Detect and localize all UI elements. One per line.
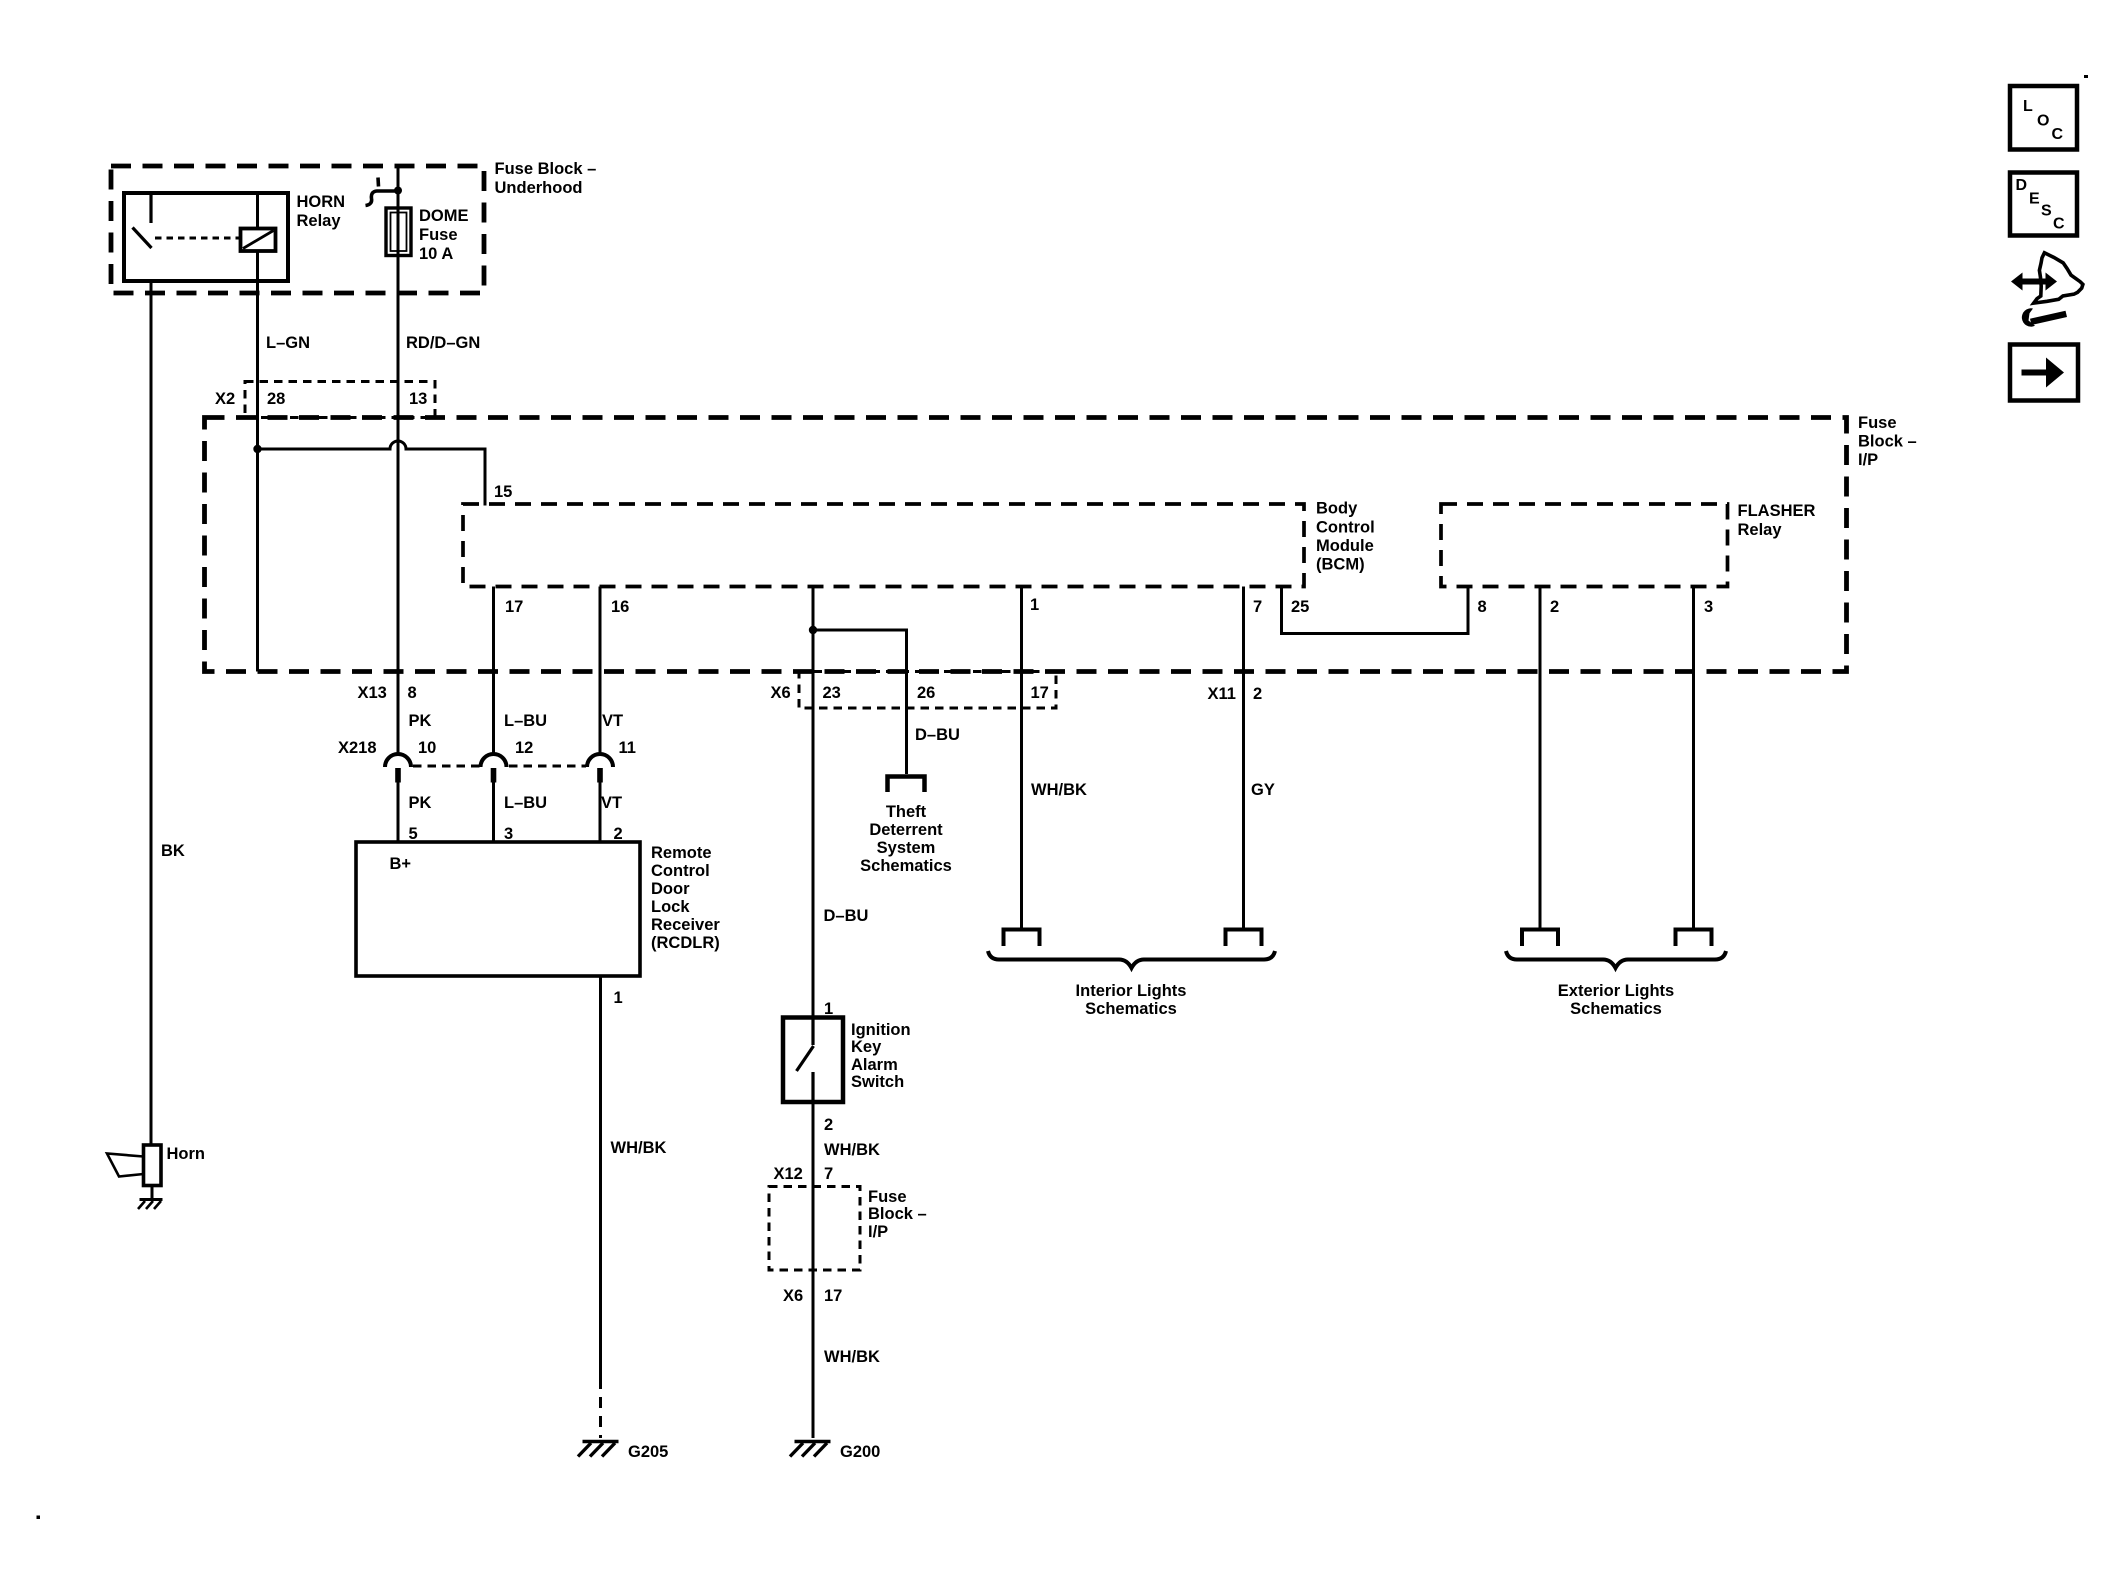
svg-text:G205: G205 [628, 1443, 668, 1461]
node junction L-GN [253, 445, 261, 453]
svg-text:VT: VT [601, 794, 622, 812]
svg-text:PK: PK [409, 712, 432, 730]
icon LOC [2010, 86, 2077, 150]
svg-text:Control: Control [651, 862, 710, 880]
svg-text:Receiver: Receiver [651, 916, 720, 934]
svg-text:12: 12 [515, 739, 533, 757]
svg-text:Lock: Lock [651, 898, 690, 916]
svg-text:X11: X11 [1208, 685, 1236, 703]
module RCDLR box [356, 825, 720, 976]
svg-text:10 A: 10 A [419, 245, 453, 263]
svg-text:Door: Door [651, 880, 690, 898]
svg-text:L: L [2023, 98, 2033, 115]
connector X6 [771, 672, 1057, 709]
svg-text:Exterior Lights: Exterior Lights [1558, 982, 1674, 1000]
svg-text:WH/BK: WH/BK [824, 1348, 880, 1366]
svg-text:Deterrent: Deterrent [869, 821, 943, 839]
svg-text:X6: X6 [771, 684, 791, 702]
connector X12 fuse block I/P [769, 1165, 927, 1305]
relay K2 FLASHER Relay box [1441, 502, 1816, 587]
brace interior lights [988, 951, 1275, 1018]
svg-text:X13: X13 [358, 684, 387, 702]
svg-text:7: 7 [1253, 598, 1262, 616]
brace exterior lights [1506, 951, 1726, 1018]
svg-text:Block –: Block – [868, 1205, 927, 1223]
fuse block underhood box [111, 160, 596, 293]
svg-text:D–BU: D–BU [824, 907, 869, 925]
svg-text:26: 26 [917, 684, 935, 702]
connector X11 labels [1208, 685, 1263, 703]
svg-text:Body: Body [1316, 500, 1358, 518]
pin 7 BCM wire GY [1244, 587, 1275, 929]
off-page theft deterrent [860, 777, 952, 876]
svg-text:Horn: Horn [167, 1145, 206, 1163]
svg-text:WH/BK: WH/BK [611, 1139, 667, 1157]
svg-text:DOME: DOME [419, 207, 469, 225]
terminal interior lights 2 [1226, 930, 1262, 947]
svg-text:X218: X218 [338, 739, 377, 757]
wire D-BU BCM 23 branch [809, 587, 960, 1018]
svg-text:1: 1 [1030, 596, 1039, 614]
svg-text:GY: GY [1251, 781, 1275, 799]
svg-text:Fuse Block –: Fuse Block – [495, 160, 597, 178]
pin 1 BCM wire WH/BK [1022, 587, 1087, 929]
pin 3 FLASHER [1694, 587, 1714, 929]
module BCM box [463, 500, 1375, 587]
svg-text:16: 16 [611, 598, 629, 616]
svg-text:Ignition: Ignition [851, 1021, 911, 1039]
svg-text:Control: Control [1316, 519, 1375, 537]
svg-text:(RCDLR): (RCDLR) [651, 934, 720, 952]
svg-text:L–BU: L–BU [504, 794, 547, 812]
wire junction to BCM pin 15 with hop [258, 441, 513, 672]
artifact marks [2084, 75, 2088, 78]
svg-text:2: 2 [1253, 685, 1262, 703]
svg-text:X2: X2 [215, 390, 235, 408]
svg-text:D: D [2016, 177, 2028, 194]
svg-text:Alarm: Alarm [851, 1056, 898, 1074]
svg-text:7: 7 [824, 1165, 833, 1183]
svg-text:1: 1 [614, 989, 623, 1007]
svg-text:Key: Key [851, 1038, 882, 1056]
wire RD/D-GN fuse to X2-13 [406, 334, 480, 352]
svg-text:RD/D–GN: RD/D–GN [406, 334, 480, 352]
svg-text:Fuse: Fuse [1858, 414, 1897, 432]
icon DESC [2010, 173, 2077, 236]
pin 16 BCM [600, 587, 629, 757]
svg-text:VT: VT [602, 712, 623, 730]
svg-text:X6: X6 [783, 1287, 803, 1305]
svg-text:Relay: Relay [1738, 521, 1783, 539]
ground horn [138, 1186, 163, 1210]
svg-text:Module: Module [1316, 537, 1374, 555]
svg-text:Fuse: Fuse [419, 226, 458, 244]
svg-text:8: 8 [408, 684, 417, 702]
svg-text:25: 25 [1291, 598, 1309, 616]
svg-text:WH/BK: WH/BK [1031, 781, 1087, 799]
svg-text:PK: PK [409, 794, 432, 812]
fuse block I/P box [205, 414, 1917, 672]
svg-text:Interior Lights: Interior Lights [1076, 982, 1187, 1000]
svg-text:15: 15 [494, 483, 512, 501]
svg-text:I/P: I/P [1858, 451, 1878, 469]
relay K1 HORN Relay [124, 193, 345, 281]
svg-text:FLASHER: FLASHER [1738, 502, 1816, 520]
svg-text:17: 17 [1031, 684, 1049, 702]
svg-text:8: 8 [1478, 598, 1487, 616]
svg-text:E: E [2029, 191, 2040, 208]
svg-text:B+: B+ [390, 855, 412, 873]
ground G200 [790, 1442, 880, 1462]
svg-text:17: 17 [824, 1287, 842, 1305]
svg-text:Fuse: Fuse [868, 1188, 907, 1206]
svg-text:13: 13 [409, 390, 427, 408]
svg-text:Underhood: Underhood [495, 179, 583, 197]
svg-text:Schematics: Schematics [1570, 1000, 1662, 1018]
svg-text:WH/BK: WH/BK [824, 1141, 880, 1159]
svg-text:G200: G200 [840, 1443, 880, 1461]
wire RCDLR pin 1 WH/BK [601, 976, 667, 1438]
svg-text:28: 28 [267, 390, 285, 408]
svg-text:S: S [2041, 203, 2052, 220]
svg-text:23: 23 [823, 684, 841, 702]
svg-text:2: 2 [824, 1116, 833, 1134]
svg-text:BK: BK [161, 842, 185, 860]
wire BK horn feed [151, 281, 185, 1145]
svg-text:L–GN: L–GN [266, 334, 310, 352]
terminal exterior lights 1 [1522, 930, 1558, 947]
svg-text:O: O [2037, 113, 2049, 130]
terminal interior lights 1 [1004, 930, 1040, 947]
svg-text:X12: X12 [774, 1165, 803, 1183]
connector X2 [215, 382, 435, 418]
svg-text:Block –: Block – [1858, 433, 1917, 451]
switch S1 Ignition Key Alarm Switch [783, 1000, 911, 1102]
svg-text:Switch: Switch [851, 1073, 904, 1091]
terminal exterior lights 2 [1676, 930, 1712, 947]
wire WH/BK ignition to G200 [813, 1102, 880, 1438]
svg-text:17: 17 [505, 598, 523, 616]
fuse F1 DOME Fuse 10A [366, 166, 469, 756]
connector X218 [338, 739, 636, 842]
svg-text:11: 11 [619, 739, 636, 757]
svg-text:HORN: HORN [297, 193, 346, 211]
svg-text:L–BU: L–BU [504, 712, 547, 730]
svg-text:C: C [2053, 216, 2065, 233]
svg-text:C: C [2052, 126, 2064, 143]
icon harness routing arrow and wrench [2011, 253, 2083, 327]
svg-text:Schematics: Schematics [1085, 1000, 1177, 1018]
svg-text:Theft: Theft [886, 803, 927, 821]
svg-text:Remote: Remote [651, 844, 712, 862]
wire L-GN relay to X2-28 [258, 251, 311, 449]
svg-text:2: 2 [1550, 598, 1559, 616]
ground G205 [578, 1442, 668, 1462]
svg-text:System: System [877, 839, 936, 857]
svg-text:D–BU: D–BU [915, 726, 960, 744]
svg-text:I/P: I/P [868, 1223, 888, 1241]
connector X13 labels [358, 684, 432, 730]
pin 2 FLASHER [1540, 587, 1559, 929]
wire BCM 25 to FLASHER 8 [1282, 587, 1487, 634]
svg-text:3: 3 [1704, 598, 1713, 616]
component horn [107, 1145, 205, 1186]
svg-text:10: 10 [418, 739, 436, 757]
svg-text:Relay: Relay [297, 212, 342, 230]
svg-text:Schematics: Schematics [860, 857, 952, 875]
icon forward arrow [2010, 345, 2078, 401]
svg-text:(BCM): (BCM) [1316, 556, 1365, 574]
pin 17 BCM [494, 587, 548, 757]
